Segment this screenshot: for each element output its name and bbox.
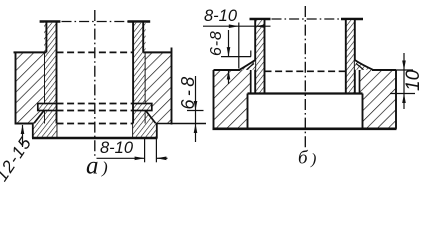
- svg-text:8-10: 8-10: [204, 7, 238, 25]
- centerline horizontal at tube top b: [272, 18, 341, 20]
- plate left block hatch: [16, 52, 45, 123]
- dimension 8-10 arrow right-pointing: [135, 157, 145, 161]
- dimension 6-8 up arrowhead: [194, 124, 198, 134]
- top end cap right wall b: [341, 18, 363, 20]
- dimension 8-10 line right part: [156, 157, 167, 159]
- plate top edge right: [143, 51, 171, 53]
- tube left wall outer edge above plate: [45, 21, 47, 52]
- counterbore right wall b: [362, 94, 364, 129]
- centerline vertical left view: [94, 10, 96, 158]
- extension line at flange edge: [155, 138, 157, 162]
- bushing right wall outer edge b: [354, 19, 356, 94]
- counterbore left wall b: [247, 94, 249, 129]
- plate bottom edge right with extension line: [156, 123, 206, 125]
- dimension 6-8 b down arrowhead: [227, 47, 231, 57]
- flange bottom face: [32, 137, 158, 140]
- flange right outer edge: [156, 124, 158, 139]
- expanded collar bead right: [133, 104, 152, 111]
- plate right edge b: [395, 70, 397, 129]
- svg-text:6-8: 6-8: [208, 30, 225, 56]
- hole edge left b: [250, 70, 252, 94]
- hidden line bore at plate bottom: [57, 123, 134, 125]
- plate bottom edge left: [16, 123, 45, 125]
- centerline horizontal at tube top: [62, 21, 129, 23]
- expanded collar bead left: [38, 104, 57, 111]
- plate right block hatch: [146, 52, 172, 123]
- plate bottom face b: [213, 128, 397, 131]
- bushing left wall outer edge b: [254, 19, 256, 94]
- extension line flare top level b: [221, 56, 251, 58]
- tube right wall inner edge: [132, 21, 134, 138]
- plate top edge right b: [372, 69, 396, 71]
- countersink flare right: [146, 111, 156, 124]
- tube right wall outer edge in plate: [145, 52, 147, 103]
- dimension 6-8 b upper shaft: [228, 30, 230, 57]
- tube left wall hatch: [44, 23, 57, 124]
- dimension 8-10 b shelf line: [203, 25, 271, 27]
- tube left wall outer edge in plate: [43, 52, 45, 103]
- svg-text:10: 10: [403, 69, 424, 91]
- top end cap left wall: [40, 20, 61, 23]
- plate right block hatch b: [360, 70, 397, 129]
- hole edge right b: [359, 70, 361, 94]
- flange right section hatch: [133, 124, 157, 139]
- svg-text:12-15: 12-15: [0, 133, 35, 185]
- dimension 8-10 line left part: [97, 157, 145, 159]
- plate top edge left: [14, 51, 47, 53]
- bushing left wall inner edge b: [264, 19, 266, 94]
- flange left section hatch: [33, 124, 57, 139]
- plate left block hatch b: [214, 70, 251, 129]
- plate left edge: [15, 52, 17, 125]
- extension line plate top b: [391, 69, 413, 71]
- dimension 6-8 b lower shaft: [228, 70, 230, 84]
- tube left wall inner edge: [56, 21, 58, 138]
- flange left outer edge: [32, 124, 34, 139]
- extension stub at wall b: [250, 51, 252, 57]
- dimension 6-8 shaft lower: [195, 124, 197, 143]
- extension line counterbore ceiling b: [390, 93, 415, 95]
- dimension 10 b up arrowhead: [402, 94, 406, 104]
- dimension 8-10 arrow left-pointing: [156, 157, 166, 161]
- dimension 6-8 down arrowhead: [194, 101, 198, 111]
- bushing left wall hatch b: [255, 20, 264, 93]
- svg-text:): ): [310, 151, 316, 168]
- dimension 12-15 arrowhead: [21, 125, 25, 135]
- hidden line bore at plate top: [57, 51, 134, 53]
- tube right wall hatch: [133, 23, 146, 124]
- centerline vertical right view: [304, 6, 306, 150]
- countersink flare left: [34, 111, 44, 124]
- counterbore ceiling and bushing bottom b: [248, 92, 363, 94]
- svg-text:6-8: 6-8: [178, 73, 198, 109]
- svg-text:б: б: [298, 148, 309, 169]
- dimension 10 b shaft: [403, 53, 405, 109]
- dimension 6-8 b up arrowhead: [227, 70, 231, 80]
- plate left edge b: [213, 70, 215, 129]
- plate right edge: [171, 48, 173, 125]
- dimension 8-10 b left-pointing arrow: [255, 24, 265, 28]
- dimension 10 b down arrowhead: [402, 61, 406, 71]
- dimension 12-15 leader line: [22, 125, 24, 147]
- extension line flare tip b: [238, 23, 240, 69]
- plate top edge left b: [214, 69, 241, 71]
- bushing right wall inner edge b: [345, 19, 347, 94]
- svg-text:а: а: [86, 153, 99, 180]
- top end cap left wall b: [250, 18, 271, 20]
- hidden line bore at collar bottom: [57, 110, 134, 112]
- extension line collar bottom level: [187, 110, 204, 112]
- tube right wall outer edge above plate: [142, 21, 144, 52]
- top end cap right wall: [128, 20, 151, 23]
- svg-text:8-10: 8-10: [100, 139, 134, 157]
- extension line at flare edge: [144, 138, 146, 162]
- dimension 8-10 b right-pointing arrow: [229, 24, 239, 28]
- dimension 6-8 shaft upper: [195, 76, 197, 124]
- hidden line through bore b: [265, 70, 346, 72]
- svg-text:): ): [101, 158, 108, 177]
- bushing right wall hatch b: [346, 20, 355, 93]
- peened flare right b: [355, 60, 373, 70]
- hidden line bore at collar top: [57, 103, 134, 105]
- peened flare left b: [240, 60, 256, 70]
